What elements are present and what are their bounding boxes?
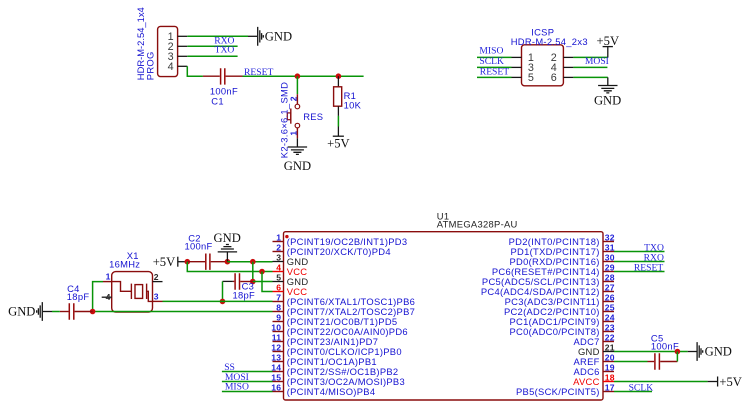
wire RXO from pin30 <box>614 261 665 263</box>
svg-text:HDR-M-2.54_2x3: HDR-M-2.54_2x3 <box>511 36 588 47</box>
pin 4 of X1 <box>102 292 112 302</box>
wire SS to pin14 <box>222 371 273 373</box>
wire ICSP pin6 to GND <box>563 77 607 85</box>
svg-text:17: 17 <box>605 382 615 392</box>
svg-text:3: 3 <box>154 292 159 302</box>
ground GND right <box>688 342 732 361</box>
wire VCC to pin6 <box>262 272 273 292</box>
pin 29 of U1 PC6(RESET#/PCINT14) <box>492 262 615 277</box>
pin 1 of U1 (PCINT19/OC2B/INT1)PD3 <box>273 232 408 247</box>
svg-text:11: 11 <box>272 332 282 342</box>
wire GND from pin21 <box>614 351 688 353</box>
wire C3 down to XTAL1 <box>222 281 224 301</box>
power +5V below R1 <box>327 127 350 151</box>
pin 5 of U1 GND <box>273 272 309 287</box>
pushbutton RES K2-3.6x6.1_SMD <box>287 94 299 138</box>
op-amp U1 ATMEGA328P-AU body <box>284 232 604 400</box>
svg-text:10: 10 <box>271 322 281 332</box>
pin 1 of PROG <box>168 31 188 43</box>
svg-text:100nF: 100nF <box>651 341 679 352</box>
svg-text:13: 13 <box>271 352 281 362</box>
node junction GND-C5 <box>675 349 681 355</box>
ground GND above C2 <box>214 231 241 262</box>
svg-text:8: 8 <box>276 302 281 312</box>
node junction RESET-RES <box>295 73 301 79</box>
svg-text:16MHz: 16MHz <box>109 259 140 270</box>
svg-text:2: 2 <box>288 96 298 101</box>
wire RESET to R1 <box>337 76 339 87</box>
crystal X1 16MHz <box>112 272 153 312</box>
pin 21 of U1 GND <box>578 342 615 357</box>
svg-text:ATMEGA328P-AU: ATMEGA328P-AU <box>437 218 518 229</box>
svg-text:18: 18 <box>605 372 615 382</box>
wire GND vertical pin3-pin5 <box>252 262 254 282</box>
node junction GND-pin5 <box>250 279 256 285</box>
svg-text:18pF: 18pF <box>233 290 256 301</box>
capacitor C3 18pF <box>223 273 253 289</box>
svg-text:GND: GND <box>8 305 35 319</box>
wire RESET from pin29 <box>614 271 665 273</box>
svg-text:MISO: MISO <box>225 382 249 393</box>
ground GND below RES <box>284 138 311 173</box>
node junction XTAL2-C4 <box>90 309 96 315</box>
node junction XTAL1 <box>220 299 226 305</box>
svg-text:26: 26 <box>605 292 615 302</box>
pin 18 of U1 AVCC <box>573 372 615 387</box>
svg-text:29: 29 <box>605 262 615 272</box>
svg-text:5: 5 <box>528 72 534 84</box>
svg-text:1: 1 <box>288 131 298 136</box>
pin 4 of U1 VCC <box>273 262 308 277</box>
wire XTAL1 crystal to pin7 <box>153 300 273 302</box>
power +5V at ICSP <box>597 34 620 48</box>
svg-text:30: 30 <box>605 252 615 262</box>
wire RESET to button <box>296 76 298 94</box>
svg-text:7: 7 <box>276 292 281 302</box>
pin 16 of U1 (PCINT4/MISO)PB4 <box>271 382 375 397</box>
svg-text:14: 14 <box>271 362 281 372</box>
connector ICSP HDR-M-2.54_2x3 <box>522 45 564 86</box>
svg-text:4: 4 <box>168 61 174 73</box>
svg-text:C1: C1 <box>211 95 224 106</box>
wire PROG pin2 RXO <box>187 45 237 47</box>
wire GND net to pin3 <box>227 261 272 263</box>
ground GND below ICSP <box>594 86 621 108</box>
wire PROG pin3 TXO <box>187 55 237 57</box>
pin 17 of U1 PB5(SCK/PCINT5) <box>516 382 615 397</box>
svg-text:6: 6 <box>276 282 281 292</box>
pin 24 of U1 PC1(ADC1/PCINT9) <box>509 312 614 327</box>
ground GND far left <box>8 302 60 321</box>
svg-text:3: 3 <box>276 252 281 262</box>
node junction +5V <box>185 259 191 265</box>
svg-text:GND: GND <box>705 345 732 359</box>
svg-text:21: 21 <box>605 342 615 352</box>
wire R1 to +5V <box>337 106 339 126</box>
svg-text:1: 1 <box>106 272 111 282</box>
capacitor C2 100nF <box>187 254 227 270</box>
svg-text:4: 4 <box>106 292 111 302</box>
pin 13 of U1 (PCINT1/OC1A)PB1 <box>271 352 377 367</box>
svg-text:+5V: +5V <box>153 255 176 269</box>
svg-text:24: 24 <box>605 312 615 322</box>
svg-text:22: 22 <box>605 332 615 342</box>
pin 6 of U1 VCC <box>273 282 308 297</box>
svg-text:12: 12 <box>271 342 281 352</box>
node junction RESET-R1 <box>336 73 342 79</box>
wire ICSP pin2 to +5V <box>563 47 607 58</box>
wire PROG pin1 to GND <box>187 35 248 37</box>
power +5V right <box>708 375 742 389</box>
pin 23 of U1 PC0(ADC0/PCINT8) <box>509 322 614 337</box>
wire AVCC from pin18 <box>614 381 708 383</box>
pin 27 of U1 PC4(ADC4/SDA/PCINT12) <box>481 282 615 297</box>
svg-text:31: 31 <box>605 242 615 252</box>
svg-text:+5V: +5V <box>327 137 350 151</box>
svg-text:5: 5 <box>276 272 281 282</box>
wire ICSP pin4 MOSI <box>563 66 607 68</box>
svg-text:27: 27 <box>605 282 615 292</box>
pin 22 of U1 ADC7 <box>573 332 614 347</box>
node junction VCC-pin4 <box>259 269 265 275</box>
connector PROG HDR-M-2.54_1x4 <box>158 26 178 76</box>
pin 11 of U1 (PCINT23/AIN1)PD7 <box>272 332 379 347</box>
capacitor C4 18pF <box>60 303 93 319</box>
svg-text:RES: RES <box>303 111 323 122</box>
pin 14 of U1 (PCINT2/SS#/OC1B)PB2 <box>271 362 398 377</box>
wire XTAL2 pin8 net <box>93 282 273 312</box>
pin 3 of U1 GND <box>273 252 309 267</box>
svg-text:1: 1 <box>276 232 281 242</box>
wire GND to pin5 <box>253 281 273 283</box>
svg-text:RESET: RESET <box>244 67 273 78</box>
svg-text:32: 32 <box>605 232 615 242</box>
pin 9 of U1 (PCINT21/OC0B/T1)PD5 <box>273 312 398 327</box>
pin 19 of U1 ADC6 <box>573 362 614 377</box>
pin 2 of PROG <box>168 41 188 53</box>
svg-text:23: 23 <box>605 322 615 332</box>
svg-text:16: 16 <box>271 382 281 392</box>
wire RESET net <box>243 75 364 77</box>
pin 7 of U1 (PCINT6/XTAL1/TOSC1)PB6 <box>273 292 416 307</box>
pin 10 of U1 (PCINT22/OC0A/AIN0)PD6 <box>271 322 408 337</box>
pin 31 of U1 PD1(TXD/PCINT17) <box>510 242 614 257</box>
svg-text:(PCINT4/MISO)PB4: (PCINT4/MISO)PB4 <box>287 386 376 397</box>
pin 28 of U1 PC5(ADC5/SCL/PCINT13) <box>482 272 615 287</box>
svg-text:PB5(SCK/PCINT5): PB5(SCK/PCINT5) <box>516 386 600 397</box>
pin 25 of U1 PC2(ADC2/PCINT10) <box>504 302 615 317</box>
power +5V near crystal <box>153 255 188 269</box>
wire MOSI to pin15 <box>222 381 273 383</box>
node junction GND-C2 <box>225 259 231 265</box>
svg-text:RESET: RESET <box>480 66 509 77</box>
pin 12 of U1 (PCINT0/CLKO/ICP1)PB0 <box>271 342 402 357</box>
svg-text:+5V: +5V <box>719 375 742 389</box>
svg-text:GND: GND <box>265 30 292 44</box>
svg-text:GND: GND <box>214 231 241 245</box>
svg-text:18pF: 18pF <box>67 291 90 302</box>
pin 26 of U1 PC3(ADC3/PCINT11) <box>505 292 615 307</box>
pin 20 of U1 AREF <box>573 352 614 367</box>
svg-text:19: 19 <box>605 362 615 372</box>
pin 30 of U1 PD0(RXD/PCINT16) <box>509 252 614 267</box>
wire TXO from pin31 <box>614 251 665 253</box>
svg-text:20: 20 <box>605 352 615 362</box>
svg-text:2: 2 <box>154 272 159 282</box>
svg-text:RESET: RESET <box>634 263 663 274</box>
wire SCLK from pin17 <box>614 391 652 393</box>
svg-text:10K: 10K <box>344 100 362 111</box>
resistor R1 10K <box>334 87 342 106</box>
svg-text:TXO: TXO <box>215 45 235 56</box>
pin 15 of U1 (PCINT3/OC2A/MOSI)PB3 <box>271 372 405 387</box>
svg-text:PROG: PROG <box>144 51 155 80</box>
wire SCLK to ICSP pin3 <box>477 66 522 68</box>
ground GND top <box>248 27 292 46</box>
capacitor C5 100nF <box>648 352 678 370</box>
svg-text:15: 15 <box>271 372 281 382</box>
wire AREF from pin20 <box>614 361 648 363</box>
svg-text:MOSI: MOSI <box>585 56 609 67</box>
node junction GND-pin3 <box>250 259 256 265</box>
svg-text:4: 4 <box>276 262 281 272</box>
pin 4 of PROG <box>168 61 188 73</box>
svg-text:6: 6 <box>551 72 557 84</box>
wire +5V rail to pin4 <box>187 262 272 272</box>
pin 2 of X1 <box>153 272 163 282</box>
wire MISO to ICSP pin1 <box>477 56 522 58</box>
svg-text:2: 2 <box>276 242 281 252</box>
wire RESET to ICSP pin5 <box>477 76 522 78</box>
svg-text:25: 25 <box>605 302 615 312</box>
wire PROG pin4 to C1 <box>187 66 203 76</box>
pin 2 of U1 (PCINT20/XCK/T0)PD4 <box>273 242 391 257</box>
svg-text:9: 9 <box>276 312 281 322</box>
pin 3 of PROG <box>168 51 188 63</box>
svg-text:100nF: 100nF <box>185 240 213 251</box>
capacitor C1 100nF <box>203 68 243 84</box>
pin 8 of U1 (PCINT7/XTAL2/TOSC2)PB7 <box>273 302 416 317</box>
svg-text:GND: GND <box>594 93 621 107</box>
pin 32 of U1 PD2(INT0/PCINT18) <box>509 232 615 247</box>
svg-text:+5V: +5V <box>597 34 620 48</box>
wire MISO to pin16 <box>222 391 273 393</box>
svg-text:SCLK: SCLK <box>629 382 654 393</box>
svg-text:28: 28 <box>605 272 615 282</box>
svg-text:GND: GND <box>284 159 311 173</box>
